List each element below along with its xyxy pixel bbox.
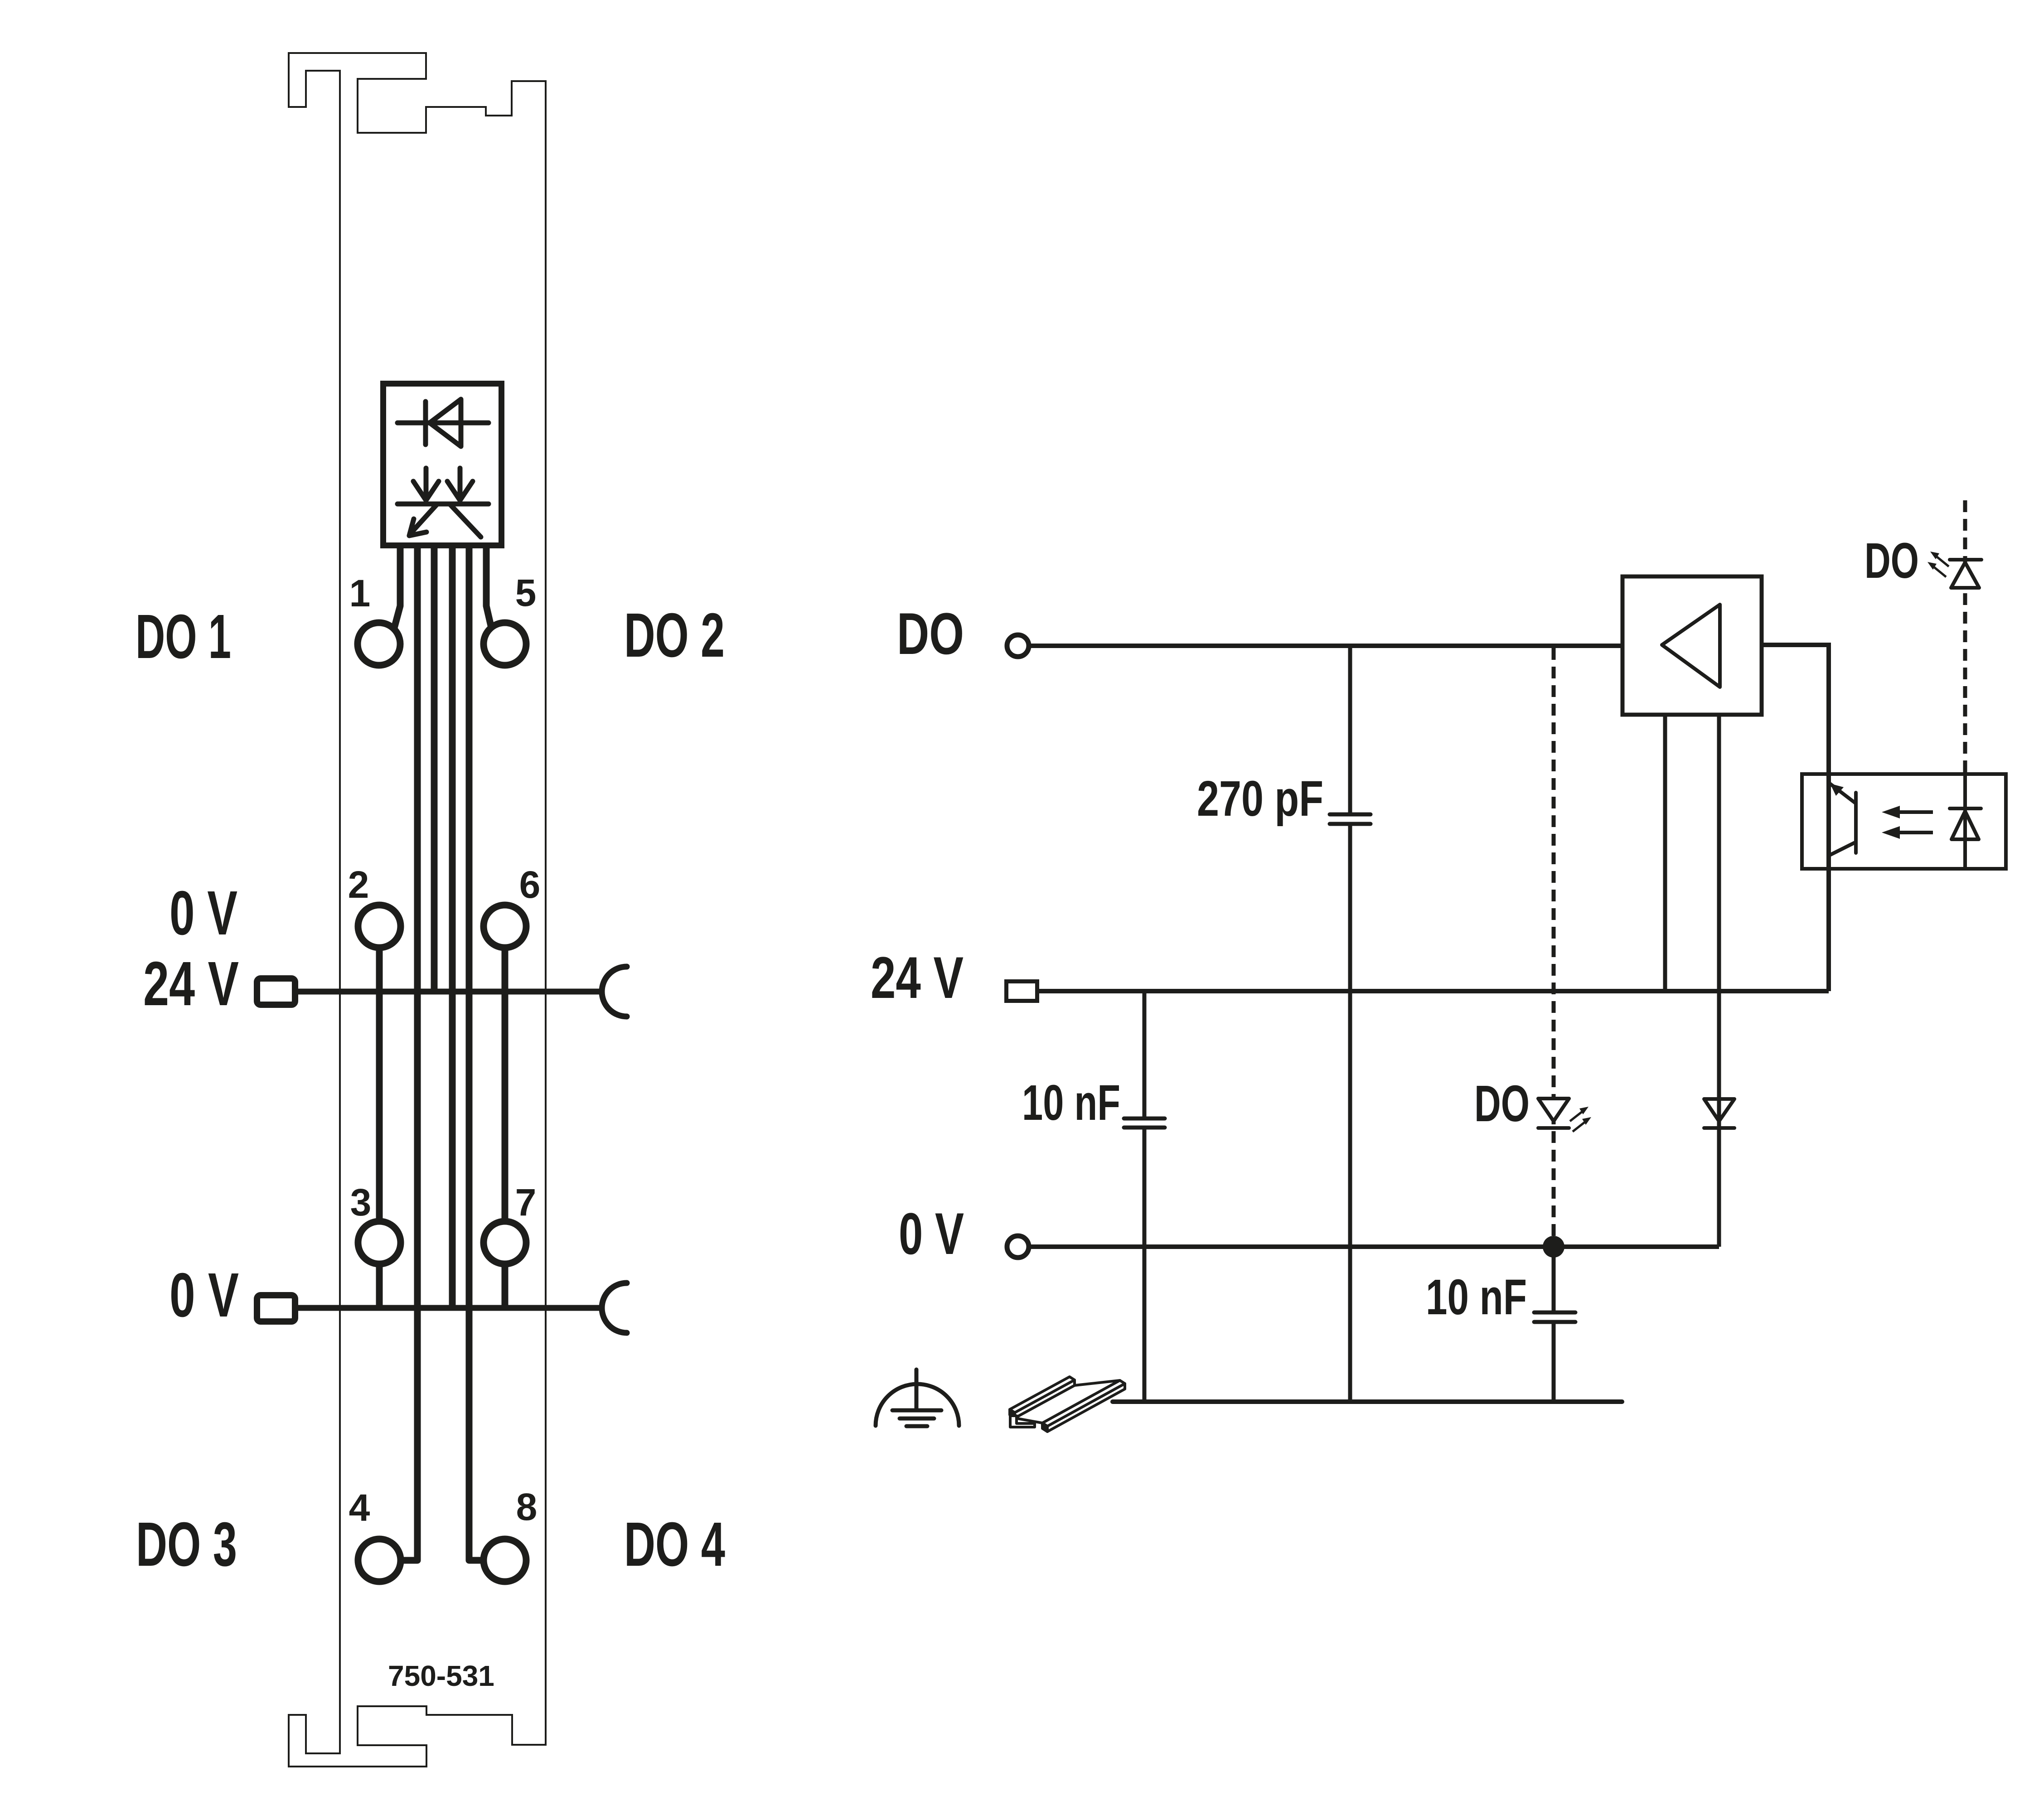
wire lead to terminal 1 (394, 548, 400, 629)
svg-text:4: 4 (349, 1486, 370, 1529)
24V input contact (square) (1007, 982, 1037, 1001)
terminal 5 (484, 623, 526, 665)
wire amp out to 24V (1762, 645, 1829, 991)
terminal 1 (358, 623, 400, 665)
24V jumper arc (602, 967, 627, 1016)
wire lead 0V (to 0V bus) (449, 548, 456, 1308)
svg-text:DO 3: DO 3 (136, 1510, 237, 1579)
24V power jumper contact (square) (257, 978, 295, 1005)
svg-text:5: 5 (515, 571, 537, 614)
diode freewheel triangle (1704, 1099, 1734, 1121)
optocoupler light arrow 2 (1899, 831, 1933, 834)
diode D1 (suppressor, cathode bar) (423, 402, 428, 445)
svg-text:DO: DO (1474, 1075, 1530, 1132)
0V jumper arc (602, 1283, 627, 1333)
phototransistor emitter diagonal with arrow (1829, 783, 1856, 804)
varistor arrow left (409, 468, 481, 537)
module outline 750-531 (289, 53, 546, 1767)
varistor bar (397, 502, 489, 507)
svg-text:7: 7 (515, 1181, 537, 1224)
terminal 6 (484, 905, 526, 948)
wire 10nF(24V) branch upper (1143, 991, 1147, 1117)
capacitor C1 270 pF (1330, 814, 1371, 824)
diode D1 triangle (430, 399, 461, 446)
DIN rail left flange top face (1010, 1377, 1075, 1413)
DIN rail icon (1010, 1377, 1125, 1432)
wire amp bottom right (freewheel branch) (1717, 715, 1721, 1247)
terminal 7 (484, 1221, 526, 1264)
terminal 4 (358, 1539, 401, 1582)
wire junction to 10nF (1552, 1247, 1556, 1311)
wire terminal 3 to 0V bus (376, 1264, 383, 1308)
varistor diagonal line (down-right) (450, 504, 481, 537)
LED DO indicator cathode bar (1538, 1126, 1569, 1130)
terminal 2 (358, 905, 401, 948)
DIN rail right flange near cap (1042, 1423, 1047, 1432)
diode freewheel cathode bar (1704, 1126, 1734, 1130)
wire lead DO4 (to terminal 8) (469, 548, 482, 1560)
varistor arrow right (458, 468, 463, 498)
node DO (open circle) (1007, 635, 1029, 657)
terminal 3 (358, 1221, 401, 1264)
LED DO top indicator triangle (1951, 562, 1979, 588)
optocoupler collector line (1827, 772, 1831, 871)
functional earth symbol (876, 1370, 959, 1426)
24V bus line (298, 989, 601, 995)
wire 270pF branch lower (1348, 826, 1352, 1402)
svg-text:DO 4: DO 4 (624, 1510, 725, 1579)
wire amp bottom left to 24V (1663, 715, 1667, 991)
wire lead DO3 (to terminal 4) (402, 548, 417, 1560)
LED DO light arrows (1570, 1110, 1587, 1132)
wire lead to terminal 5 (486, 548, 492, 629)
junction dot 0V (1543, 1236, 1564, 1258)
optocoupler LED cathode bar (1950, 807, 1981, 810)
wire 270pF branch upper (1348, 646, 1352, 813)
wire 0V rail (1030, 1244, 1719, 1249)
amplifier box U2 (1622, 576, 1762, 715)
optocoupler box U3 (1802, 774, 2006, 869)
DIN rail channel web (1015, 1380, 1120, 1423)
svg-text:750-531: 750-531 (388, 1660, 494, 1692)
DIN rail right flange top face (1042, 1380, 1125, 1426)
terminal 8 (484, 1539, 526, 1582)
svg-text:DO 1: DO 1 (136, 602, 231, 672)
earth rail (bottom) (1113, 1399, 1622, 1404)
0V power jumper contact (square) (257, 1295, 295, 1321)
svg-text:24 V: 24 V (871, 944, 964, 1011)
LED DO indicator triangle (1538, 1099, 1569, 1121)
0V bus line (298, 1305, 601, 1311)
diode D1 axis line (397, 421, 489, 426)
svg-text:DO: DO (897, 600, 964, 667)
DIN rail right flange side face (1047, 1384, 1125, 1432)
svg-text:2: 2 (348, 863, 369, 906)
suppressor box U1 (383, 384, 502, 546)
capacitor C3 10 nF (1534, 1312, 1575, 1322)
wire terminal 6 to terminal 7 (502, 948, 508, 1222)
svg-text:8: 8 (516, 1486, 538, 1528)
wire dashed top DO LED branch (1963, 500, 1967, 772)
DIN rail left flange side face (1015, 1380, 1075, 1418)
svg-text:6: 6 (519, 863, 541, 906)
LED DO top light arrows (1932, 555, 1949, 577)
svg-text:DO 2: DO 2 (624, 600, 725, 670)
optocoupler LED triangle (1952, 811, 1979, 839)
LED DO top indicator cathode bar (1950, 558, 1981, 561)
wire terminal 2 to terminal 3 (376, 948, 383, 1222)
svg-text:24 V: 24 V (143, 949, 239, 1019)
svg-text:270 pF: 270 pF (1197, 771, 1323, 827)
svg-text:10 nF: 10 nF (1426, 1269, 1527, 1325)
svg-text:DO: DO (1864, 533, 1919, 589)
varistor diagonal arrow (down-left) (410, 504, 437, 534)
DIN rail left flange near cap and lip (1010, 1409, 1015, 1418)
wire 10nF(0V) lower (1552, 1324, 1556, 1402)
phototransistor base bar (1854, 793, 1858, 853)
svg-text:0 V: 0 V (899, 1200, 964, 1267)
optocoupler light arrow 1 (1899, 810, 1933, 814)
phototransistor collector diagonal (1829, 842, 1856, 856)
svg-text:10 nF: 10 nF (1022, 1075, 1120, 1131)
svg-text:1: 1 (349, 572, 371, 615)
wire DO rail (1030, 644, 1622, 648)
capacitor C2 10 nF (1124, 1118, 1165, 1128)
wire lead 24V (to 24V bus) (431, 548, 438, 992)
wire terminal 7 to 0V bus (502, 1264, 508, 1308)
node 0V (open circle) (1007, 1236, 1029, 1258)
svg-text:3: 3 (350, 1181, 372, 1224)
wire 24V rail (1039, 989, 1829, 993)
wire 10nF(24V) branch lower (1143, 1129, 1147, 1402)
wire dashed DO-LED branch (1552, 648, 1556, 1247)
svg-text:0 V: 0 V (169, 1260, 239, 1330)
amplifier triangle (1662, 605, 1720, 687)
optocoupler LED vertical (1963, 772, 1967, 871)
svg-text:0 V: 0 V (169, 878, 237, 948)
